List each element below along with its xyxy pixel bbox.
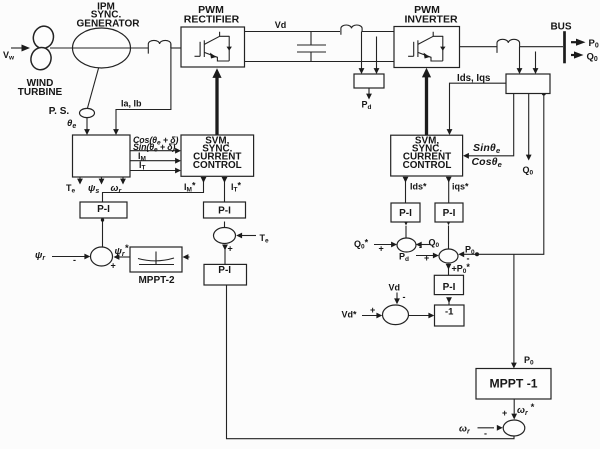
svg-text:-1: -1 xyxy=(445,307,454,318)
svg-text:-: - xyxy=(419,242,422,252)
svg-text:-: - xyxy=(467,254,470,264)
svg-text:Vd*: Vd* xyxy=(342,310,358,320)
svg-text:P. S.: P. S. xyxy=(49,106,70,117)
svg-text:CONTROL: CONTROL xyxy=(193,160,242,171)
svg-text:+: + xyxy=(424,253,429,263)
svg-text:Ids, Iqs: Ids, Iqs xyxy=(457,73,490,84)
svg-text:INVERTER: INVERTER xyxy=(404,14,458,26)
svg-text:MPPT -1: MPPT -1 xyxy=(489,377,537,391)
svg-text:+: + xyxy=(370,305,375,315)
svg-text:+: + xyxy=(111,261,116,271)
svg-text:-: - xyxy=(403,292,406,302)
svg-text:BUS: BUS xyxy=(550,22,571,33)
svg-text:Ids*: Ids* xyxy=(410,182,427,192)
svg-text:P-I: P-I xyxy=(97,204,110,215)
svg-text:-: - xyxy=(73,255,76,265)
svg-text:CONTROL: CONTROL xyxy=(403,160,452,171)
svg-text:MPPT-2: MPPT-2 xyxy=(138,275,175,286)
svg-text:+: + xyxy=(502,408,507,418)
svg-text:TURBINE: TURBINE xyxy=(18,87,63,98)
svg-text:RECTIFIER: RECTIFIER xyxy=(184,14,240,26)
svg-text:P-I: P-I xyxy=(218,265,231,276)
svg-text:P-I: P-I xyxy=(399,208,412,219)
svg-text:Vd: Vd xyxy=(389,283,401,293)
svg-text:P-I: P-I xyxy=(443,282,456,293)
svg-text:+: + xyxy=(228,244,233,254)
svg-text:P-I: P-I xyxy=(443,208,456,219)
svg-text:+: + xyxy=(379,244,384,254)
svg-text:Cosθe: Cosθe xyxy=(472,156,502,169)
svg-text:-: - xyxy=(484,429,487,439)
svg-text:GENERATOR: GENERATOR xyxy=(77,19,141,30)
svg-text:iqs*: iqs* xyxy=(452,182,469,192)
svg-text:P-I: P-I xyxy=(218,205,231,216)
svg-text:Vd: Vd xyxy=(275,20,287,30)
svg-text:Ia, Ib: Ia, Ib xyxy=(121,99,142,109)
